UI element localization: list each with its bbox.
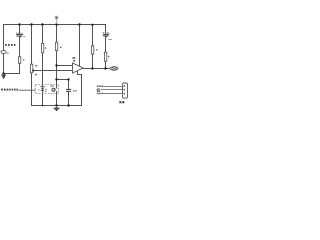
potentiometer VR1 (30, 64, 37, 75)
jack lead line 3 (102, 93, 122, 95)
resistor R3 (55, 42, 61, 50)
variable capacitor VC1 (16, 33, 25, 38)
wire op-amp V- supply with jog (78, 71, 82, 106)
power terminal symbol above rail (55, 16, 58, 24)
wire pot branch (31, 25, 33, 65)
label op-amp text (72, 57, 75, 61)
label below jack (119, 101, 124, 103)
wire inverting input (57, 65, 73, 67)
wire op-amp V+ supply (79, 25, 81, 67)
variable capacitor VC2 (103, 32, 112, 40)
op-amp U1 (73, 63, 84, 73)
wire R5 to output node (105, 61, 107, 68)
ground arrow bottom (54, 106, 59, 111)
wire diode branch upper (42, 25, 44, 44)
wire C1 to bottom rail (68, 92, 70, 106)
jack connector J1 body (123, 83, 128, 98)
wire capacitor C1 branch (68, 80, 70, 90)
wire VC1 to R1 (19, 37, 21, 57)
node output feedback junction (91, 67, 93, 69)
wire bottom ground rail (32, 105, 82, 107)
jack lead line 1 (103, 86, 123, 88)
wire trimmer branch VC1 (19, 25, 21, 35)
resistor R5 (104, 52, 109, 61)
wire op-amp output (83, 68, 110, 70)
battery/fuse F1 on left line (1, 51, 9, 54)
label power switch text (5, 44, 15, 46)
node rail junction C (41, 23, 43, 25)
capacitor C1 (66, 89, 77, 91)
label tuner leader line (19, 89, 36, 91)
node bypass junction (55, 78, 57, 80)
node ground junction left (2, 72, 4, 74)
label jack lead 1 (97, 86, 103, 88)
jack pin 3 (124, 93, 125, 95)
label jack lead 2 (97, 89, 100, 92)
wire R4 to output node (92, 54, 94, 68)
node rail junction B (30, 23, 32, 25)
wire pot to bottom rail (31, 73, 33, 106)
wire right vertical from rail (105, 25, 107, 34)
node rail junction F (91, 24, 93, 26)
wire trimmer VC2 to R5 (105, 36, 107, 52)
node bottom rail capacitor junction (67, 104, 69, 106)
wire top supply rail (4, 24, 106, 26)
tuner coil/varactor symbol (50, 86, 55, 92)
node capacitor top junction (67, 78, 69, 80)
node bottom rail ground junction (55, 104, 57, 106)
wire R3 branch upper (56, 25, 58, 43)
node inverting input junction (55, 64, 57, 66)
wire tuner symbol to bottom rail (56, 92, 58, 106)
resistor R2 (41, 44, 46, 53)
jack pin 1 (124, 85, 125, 87)
ground arrow left (2, 74, 6, 79)
resistor R4 (91, 46, 97, 54)
wire R3 down long (56, 51, 58, 88)
jack pin 2 (124, 89, 125, 91)
wire feedback resistor branch (92, 25, 94, 46)
node rail junction D (55, 23, 57, 25)
photodiode D1 (38, 86, 47, 92)
wire diode D1 to bottom rail (42, 91, 44, 106)
wire R2 to diode D1 (42, 53, 44, 88)
node rail junction A (18, 23, 20, 25)
wire pot wiper to non-inverting input (33, 70, 72, 72)
wire left vertical from rail (3, 25, 5, 74)
wire bypass tap (57, 79, 69, 81)
label tuner text (1, 89, 18, 91)
earphone P1 (110, 67, 118, 71)
label jack lead 3 (97, 93, 103, 95)
dashed tuner enclosure (35, 84, 58, 93)
wire R1 to ground bus (4, 63, 20, 73)
node bottom rail diode junction (42, 105, 44, 107)
node rail junction E (78, 23, 80, 25)
jack lead line 2 (101, 89, 123, 91)
resistor R1 (18, 57, 24, 64)
node output right junction (104, 67, 106, 69)
